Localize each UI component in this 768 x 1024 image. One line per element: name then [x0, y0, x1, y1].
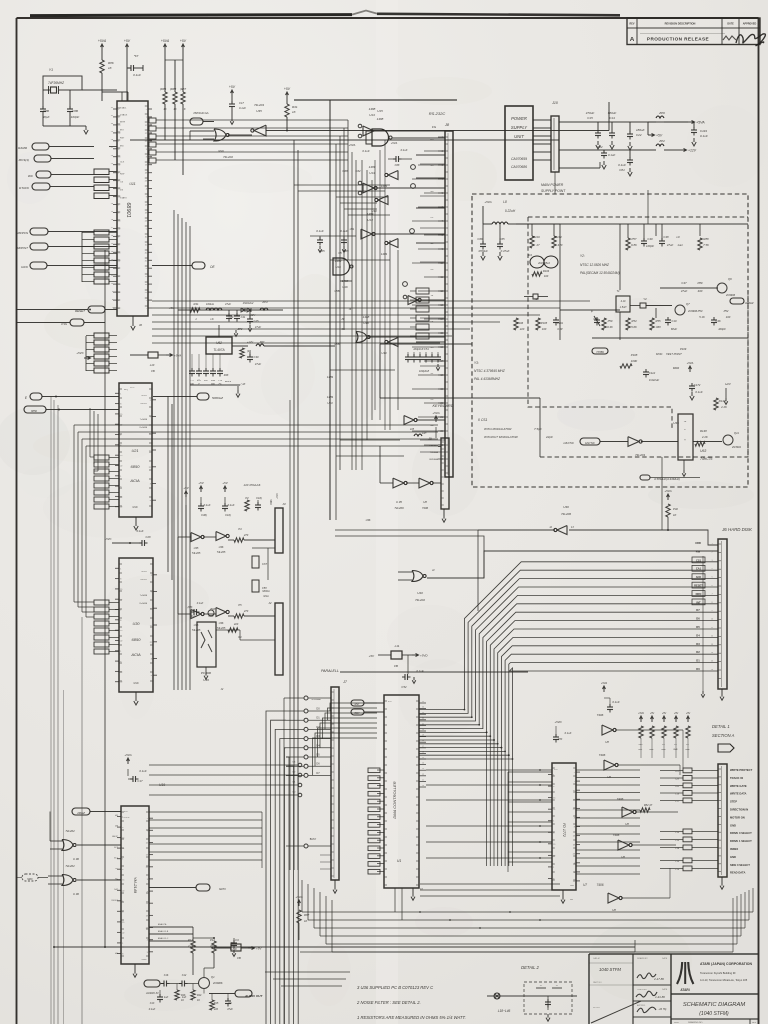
svg-text:0.1uF: 0.1uF: [565, 731, 572, 735]
svg-text:74L204: 74L204: [254, 103, 264, 107]
svg-text:AUDIO OUT: AUDIO OUT: [244, 994, 263, 998]
svg-text:+5VA: +5VA: [124, 753, 131, 757]
svg-text:RAMR: RAMR: [18, 146, 28, 150]
wires driver outputs: [374, 130, 445, 132]
svg-text:1.5uH: 1.5uH: [620, 306, 627, 309]
scan edge streak top: [30, 15, 352, 16]
left edge wire RESET long: [17, 146, 31, 148]
ground U62 area: [237, 386, 239, 390]
svg-text:R87: R87: [304, 913, 310, 917]
svg-text:U30: U30: [133, 622, 141, 626]
svg-text:12: 12: [422, 774, 424, 776]
svg-text:P2: P2: [245, 496, 249, 500]
svg-text:1: 1: [122, 859, 123, 861]
svg-text:RxCLK: RxCLK: [141, 579, 148, 581]
svg-text:RS-232C: RS-232C: [429, 111, 446, 116]
wire y947 bottom: [54, 946, 635, 948]
connector J8: [445, 131, 453, 477]
svg-text:TxCLK: TxCLK: [141, 395, 148, 397]
svg-text:R48: R48: [224, 374, 229, 377]
svg-text:0.47uF: 0.47uF: [501, 249, 510, 253]
resistor P32 1K: [667, 495, 669, 500]
svg-text:1: 1: [120, 610, 121, 612]
signature Kawamoto: [637, 973, 656, 979]
svg-text:DS: DS: [120, 190, 124, 192]
svg-text:P57: P57: [632, 237, 637, 241]
ground U39: [205, 667, 207, 672]
wire U62 out +12V: [232, 345, 248, 347]
svg-text:8: 8: [122, 911, 123, 913]
detail1 arrow symbol: [718, 744, 734, 752]
svg-text:D3: D3: [696, 642, 700, 646]
bus verticals left of page: [53, 400, 55, 1024]
svg-text:23: 23: [145, 181, 147, 183]
opto coupler U39 PC-900: [197, 622, 216, 667]
J6 bus fan wires: [419, 562, 718, 710]
svg-text:14: 14: [573, 881, 575, 883]
svg-text:0.1uF: 0.1uF: [316, 229, 324, 233]
svg-text:C41: C41: [241, 315, 246, 319]
ferrite bead boxes L-series: [683, 768, 692, 773]
svg-text:MAIN POWER: MAIN POWER: [541, 183, 564, 187]
svg-text:7406: 7406: [597, 713, 604, 717]
svg-text:47uF: 47uF: [667, 243, 674, 247]
wires modulator mid: [340, 671, 528, 673]
staircase bus U1-left to J7 area: [330, 703, 377, 711]
signature Katayama: [636, 991, 657, 997]
floppy connector J4: [718, 764, 727, 877]
svg-text:0.22uH: 0.22uH: [505, 209, 516, 213]
svg-text:1488: 1488: [342, 279, 349, 283]
IC U62 TL497A: [206, 337, 232, 354]
connector J6: [718, 539, 727, 689]
svg-text:0.1uF: 0.1uF: [362, 149, 369, 153]
svg-text:1488: 1488: [363, 315, 370, 319]
svg-text:DATE: DATE: [662, 957, 668, 960]
svg-text:13: 13: [573, 836, 575, 838]
svg-text:2N2905x2: 2N2905x2: [537, 261, 550, 265]
svg-text:APPROVED: APPROVED: [743, 23, 757, 26]
svg-text:15: 15: [120, 455, 122, 457]
svg-text:RST: RST: [355, 703, 360, 706]
svg-text:400: 400: [698, 289, 703, 293]
svg-text:8: 8: [122, 869, 123, 871]
svg-text:7: 7: [146, 308, 147, 310]
svg-text:220: 220: [638, 744, 643, 746]
svg-text:IEO: IEO: [120, 130, 124, 132]
svg-text:22: 22: [553, 809, 555, 811]
bus vertical x298: [297, 150, 299, 870]
svg-text:VCC: VCC: [130, 387, 135, 389]
svg-text:11: 11: [422, 779, 424, 781]
svg-text:PRODUCTION RELEASE: PRODUCTION RELEASE: [647, 37, 709, 42]
resistor R31 1K: [286, 93, 288, 98]
svg-text:8: 8: [118, 276, 119, 278]
svg-text:C12: C12: [182, 974, 187, 977]
svg-text:U13: U13: [327, 401, 333, 405]
title diagonal slash: [591, 1001, 641, 1023]
node E oval: [30, 393, 42, 400]
svg-text:C17: C17: [239, 101, 244, 105]
capacitor C14 680uF: [611, 122, 613, 130]
svg-text:+5V: +5V: [180, 39, 187, 43]
svg-text:U21: U21: [132, 449, 139, 453]
node MCS1: [34, 155, 51, 162]
title bottom row: [671, 1018, 759, 1020]
svg-text:0.022uF: 0.022uF: [649, 378, 660, 382]
svg-text:VCC: VCC: [124, 811, 129, 813]
svg-text:1488: 1488: [369, 107, 376, 111]
svg-text:8: 8: [120, 579, 121, 581]
svg-text:MODEL: MODEL: [593, 1007, 601, 1009]
svg-text:(RP6: (RP6: [160, 87, 167, 91]
svg-text:22: 22: [118, 260, 120, 262]
U62 bottom components: [190, 384, 240, 386]
svg-text:6850: 6850: [31, 409, 37, 413]
svg-text:3: 3: [147, 879, 148, 881]
svg-text:R103: R103: [543, 269, 550, 273]
svg-text:HSYNC: HSYNC: [585, 441, 596, 445]
svg-text:ZP6: ZP6: [658, 111, 665, 115]
ground U11: [132, 316, 134, 322]
svg-text:WRITE DATA: WRITE DATA: [730, 792, 747, 796]
svg-text:J2: J2: [268, 601, 272, 605]
leader line: [589, 985, 633, 1024]
wire stub bundle RAMR block to U11: [109, 171, 117, 173]
svg-text:FD 1772: FD 1772: [562, 823, 566, 837]
RS232 receiver triangles: [388, 171, 398, 180]
svg-text:(R87: (R87: [180, 87, 187, 91]
svg-text:4.10: 4.10: [621, 300, 626, 303]
bus vertical x290: [289, 400, 291, 870]
svg-text:9: 9: [146, 197, 147, 199]
svg-text:8: 8: [151, 675, 152, 677]
svg-text:C14: C14: [609, 116, 615, 120]
svg-text:P108: P108: [631, 353, 638, 357]
svg-text:0.1uF: 0.1uF: [239, 106, 246, 110]
svg-text:GND: GND: [132, 506, 138, 509]
svg-text:GPO: GPO: [219, 887, 226, 891]
svg-text:Y3:: Y3:: [474, 361, 479, 365]
svg-text:R54: R54: [632, 319, 637, 323]
svg-text:P32: P32: [673, 507, 678, 511]
svg-text:WRITE PROTECT: WRITE PROTECT: [730, 768, 753, 772]
power rails MIDI: [185, 492, 187, 497]
svg-text:+5V: +5V: [124, 39, 131, 43]
U1 right pin stubs: [419, 702, 426, 704]
svg-text:C13: C13: [150, 1002, 155, 1005]
svg-text:DRIVE 1 SELECT: DRIVE 1 SELECT: [730, 839, 752, 843]
svg-text:C81: C81: [619, 168, 625, 172]
bus riser J6 to hd gate line: [483, 551, 485, 578]
svg-text:ATARI (JAPAN) CORPORATION: ATARI (JAPAN) CORPORATION: [700, 962, 753, 966]
svg-text:0.1uF: 0.1uF: [608, 153, 615, 157]
svg-text:(1040 STFM): (1040 STFM): [699, 1011, 729, 1017]
svg-text:+5VC: +5VC: [104, 537, 112, 541]
svg-text:DIRECTION IN: DIRECTION IN: [730, 808, 748, 812]
connector J3 MIDI OUT: [275, 508, 283, 553]
U30 address pin boxes: [94, 600, 109, 605]
svg-text:Q11: Q11: [734, 431, 739, 435]
svg-text:CA070686: CA070686: [511, 165, 527, 169]
svg-text:D7: D7: [696, 608, 700, 612]
svg-text:15: 15: [120, 414, 122, 416]
svg-text:18: 18: [422, 740, 424, 742]
svg-text:100: 100: [726, 315, 731, 319]
svg-text:1: 1: [120, 435, 121, 437]
transformer T1 coil: [616, 296, 630, 312]
svg-text:U8: U8: [607, 775, 611, 779]
svg-text:FG: FG: [430, 139, 433, 141]
svg-text:100pF: 100pF: [646, 244, 654, 248]
svg-text:220: 220: [213, 1008, 219, 1011]
svg-text:L8: L8: [503, 200, 507, 204]
wire hsync to U63: [600, 441, 628, 443]
input port resistor boxes mid: [94, 230, 109, 235]
svg-text:U40: U40: [417, 591, 423, 595]
svg-text:+5VA: +5VA: [638, 712, 644, 715]
svg-text:L6: L6: [211, 317, 214, 321]
svg-text:R88: R88: [703, 237, 709, 241]
svg-text:PAL(SECAM 12.5049224M): PAL(SECAM 12.5049224M): [580, 271, 620, 275]
svg-text:D1: D1: [316, 716, 320, 720]
svg-text:100pFx8 C51: 100pFx8 C51: [413, 347, 429, 351]
transistor Q7 2N3906: [675, 305, 685, 315]
svg-text:R31: R31: [292, 105, 298, 109]
node 32MHZ oval: [730, 298, 744, 304]
svg-text:1489: 1489: [369, 165, 376, 169]
title block frame: [588, 954, 590, 1024]
svg-text:0.1uF: 0.1uF: [340, 229, 348, 233]
IC U30 6850 ACIA: [119, 558, 153, 692]
svg-text:L05: L05: [410, 428, 415, 431]
svg-text:SUPPLY POINT: SUPPLY POINT: [541, 189, 566, 193]
svg-text:2N3904: 2N3904: [731, 446, 741, 449]
svg-text:6850: 6850: [131, 464, 141, 469]
svg-text:U8: U8: [605, 740, 609, 744]
svg-text:17: 17: [146, 855, 148, 857]
svg-text:3: 3: [574, 817, 575, 819]
svg-text:15: 15: [120, 630, 122, 632]
wire +5V rail: [559, 121, 688, 123]
svg-text:4: 4: [146, 189, 147, 191]
svg-text:WITHOUT MODULATOR: WITHOUT MODULATOR: [484, 435, 519, 439]
connector J2 MIDI IN: [275, 603, 283, 675]
svg-text:0.1uF: 0.1uF: [149, 1008, 156, 1011]
svg-text:22: 22: [120, 507, 122, 509]
svg-text:0.1uF: 0.1uF: [204, 503, 211, 507]
border frame: [16, 18, 18, 1024]
svg-text:8: 8: [553, 786, 554, 788]
svg-text:74L202: 74L202: [415, 598, 425, 602]
svg-text:100: 100: [544, 274, 549, 278]
resistor R87 1K: [181, 92, 185, 104]
svg-text:CA070659: CA070659: [511, 157, 527, 161]
svg-text:2: 2: [146, 300, 147, 302]
svg-text:+5V: +5V: [656, 134, 663, 138]
revision box: [627, 18, 760, 45]
svg-text:MOTOR ON: MOTOR ON: [730, 815, 745, 819]
svg-text:CAD-M: CAD-M: [593, 957, 600, 960]
svg-text:30pF: 30pF: [43, 115, 50, 119]
svg-text:U.95: U.95: [396, 500, 402, 504]
power +5VA mid fdc: [603, 687, 605, 692]
RS-232C section box: [294, 99, 457, 101]
svg-text:+12V: +12V: [688, 149, 697, 153]
svg-text:100K: 100K: [631, 359, 638, 363]
svg-text:1K: 1K: [673, 513, 677, 517]
svg-text:18: 18: [145, 173, 147, 175]
resistor R87 bottom 1K: [298, 901, 300, 906]
svg-text:47uF: 47uF: [255, 362, 261, 366]
wire +12V rail: [559, 149, 647, 151]
svg-text:REV: REV: [630, 23, 635, 26]
svg-text:J10: J10: [551, 101, 558, 105]
svg-text:3: 3: [151, 659, 152, 661]
svg-text:AMUP: AMUP: [112, 835, 118, 838]
svg-text:15: 15: [120, 589, 122, 591]
svg-text:15: 15: [118, 125, 120, 127]
connector J7: [331, 687, 339, 880]
svg-text:0.1uF: 0.1uF: [137, 529, 144, 533]
svg-text:R148: R148: [700, 429, 707, 433]
svg-text:U1: U1: [397, 859, 402, 863]
node IDC: [36, 171, 51, 178]
wires driver cross links: [330, 259, 390, 261]
svg-text:REVISION DESCRIPTION: REVISION DESCRIPTION: [665, 22, 696, 26]
svg-text:ANALOG B: ANALOG B: [158, 930, 169, 933]
title divider: [671, 993, 759, 995]
bus bottom extension rows: [215, 529, 768, 531]
paper fold light band: [376, 0, 398, 1024]
svg-text:22: 22: [120, 682, 122, 684]
svg-text:APPRVD: APPRVD: [637, 1004, 646, 1007]
svg-text:J3: J3: [282, 502, 286, 506]
svg-text:21: 21: [145, 292, 147, 294]
svg-text:6.3K: 6.3K: [607, 325, 613, 329]
svg-text:22: 22: [118, 165, 120, 167]
svg-text:RW: RW: [696, 549, 701, 553]
svg-text:22: 22: [422, 718, 424, 720]
svg-text:Y2: Y2: [643, 297, 647, 301]
IC U7 WD1772 FDC: [552, 763, 576, 890]
svg-text:C10): C10): [225, 513, 231, 517]
svg-text:100pF: 100pF: [71, 115, 80, 119]
svg-text:+5V: +5V: [674, 712, 679, 715]
svg-text:D4: D4: [696, 633, 700, 637]
svg-text:TxCLK: TxCLK: [141, 571, 148, 573]
svg-text:1489: 1489: [327, 375, 334, 379]
svg-text:GND: GND: [730, 823, 736, 827]
svg-text:GND: GND: [730, 855, 736, 859]
svg-text:1: 1: [122, 943, 123, 945]
svg-text:U13: U13: [369, 113, 375, 117]
svg-text:YM-2149: YM-2149: [133, 877, 138, 894]
svg-text:8: 8: [118, 117, 119, 119]
wires U1 bottom stubs: [394, 888, 396, 912]
svg-text:D4: D4: [528, 253, 532, 257]
svg-text:68uF: 68uF: [671, 327, 677, 331]
svg-text:7: 7: [574, 781, 575, 783]
bus vertical bundle lower join: [283, 698, 285, 1024]
svg-text:MCS(1): MCS(1): [19, 158, 29, 162]
svg-text:+5VD: +5VD: [420, 654, 428, 658]
svg-text:24: 24: [145, 220, 147, 222]
transistor pair D4 2N2905x2: [530, 256, 544, 268]
node RAMR: [32, 143, 49, 150]
svg-text:TL497A: TL497A: [213, 348, 224, 352]
wires buffer outputs: [615, 729, 683, 731]
node 6850CS oval: [24, 406, 46, 413]
ring detect circles J8: [411, 165, 416, 170]
svg-text:10: 10: [145, 236, 147, 238]
svg-text:8: 8: [122, 827, 123, 829]
junction dots U7 bus: [539, 769, 541, 771]
ground U21: [135, 517, 137, 522]
svg-text:0.1uF: 0.1uF: [700, 134, 708, 138]
bus horizontal pair to J6 top: [335, 529, 478, 531]
wires midi row2: [178, 613, 191, 615]
svg-text:U63: U63: [700, 449, 706, 453]
svg-text:0.1uF: 0.1uF: [133, 73, 141, 77]
node GPO oval: [196, 884, 210, 891]
svg-text:C30: C30: [254, 355, 259, 359]
svg-text:WRITE GATE: WRITE GATE: [730, 784, 747, 788]
svg-text:15: 15: [118, 157, 120, 159]
svg-text:74L205: 74L205: [192, 551, 201, 555]
svg-text:22pF: 22pF: [545, 435, 553, 439]
bus horizontals U1 to U7: [420, 883, 560, 885]
svg-text:U13: U13: [369, 171, 375, 175]
bus vertical bundle x174-190: [173, 210, 175, 690]
power rail +5V with C67: [126, 45, 128, 50]
ferrite bead ZP7: [256, 344, 264, 346]
svg-text:7406: 7406: [599, 753, 606, 757]
power +5VA U19: [127, 759, 129, 764]
capacitor C81 0.1uF: [629, 150, 631, 158]
svg-text:IRQ: IRQ: [124, 389, 128, 391]
svg-text:+5VA: +5VA: [664, 489, 671, 493]
ground J6: [721, 689, 723, 693]
bus horizontals keyboard lines: [74, 424, 438, 426]
ground J7: [334, 880, 336, 886]
svg-text:P109: P109: [680, 347, 687, 351]
capacitor C82 0.1uF: [603, 150, 605, 152]
gate 74LS02 a bottom: [62, 840, 73, 851]
svg-text:ZP2: ZP2: [658, 139, 665, 143]
svg-text:73HB9: 73HB9: [596, 351, 604, 354]
svg-text:74L206: 74L206: [394, 506, 404, 510]
svg-text:2: 2: [150, 400, 151, 402]
svg-text:P89: P89: [698, 281, 703, 285]
svg-text:D7: D7: [316, 771, 320, 775]
svg-text:8: 8: [120, 404, 121, 406]
wires modulator lower: [683, 460, 685, 470]
svg-text:1489: 1489: [381, 252, 388, 256]
junction dots bottom nest: [419, 911, 421, 913]
ground U1: [412, 888, 414, 893]
svg-text:DTACK: DTACK: [120, 114, 128, 117]
svg-text:RxDATA: RxDATA: [140, 426, 148, 429]
svg-text:U8: U8: [423, 500, 427, 504]
connector J10: [551, 116, 559, 172]
transistor Q6 2N3906: [717, 283, 727, 293]
svg-text:C119: C119: [700, 129, 707, 133]
node RESET: [88, 306, 105, 313]
atari logo: [684, 962, 686, 984]
capacitor C30 47uF: [249, 352, 251, 356]
svg-text:INDEX: INDEX: [730, 847, 738, 851]
